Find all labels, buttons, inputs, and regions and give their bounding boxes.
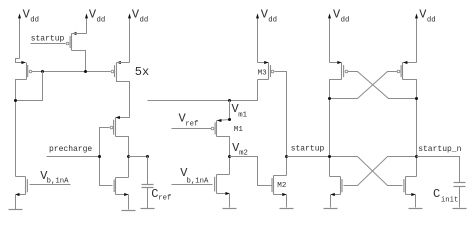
- transistor P5 latch-PMOS channel: [341, 63, 343, 80]
- transistor N2 source arrow: [15, 193, 19, 196]
- wire N2 gate Vb: [30, 184, 71, 186]
- wire N5 drain: [406, 176, 417, 178]
- wire diode connection: [16, 72, 43, 101]
- wire inverter output: [129, 156, 148, 158]
- label startup net: [291, 145, 325, 154]
- transistor P3 5x-PMOS channel: [116, 63, 118, 80]
- transistor M2 gate bar: [271, 178, 273, 192]
- transistor P5 source arrow: [337, 61, 341, 64]
- node cross left junction: [328, 97, 331, 100]
- transistor N5 NMOS channel: [405, 177, 407, 195]
- transistor P4 source arrow: [116, 116, 120, 119]
- label Vdd 3: [132, 8, 148, 25]
- wire N2 source: [16, 194, 26, 196]
- wire startup_n to Cinit: [417, 157, 460, 183]
- transistor N4 source arrow: [331, 193, 335, 196]
- transistor M2 NMOS channel: [273, 176, 275, 195]
- wire P1 drain: [16, 80, 27, 177]
- ground Cref: [141, 208, 155, 210]
- wire P3 source to Vdd: [117, 62, 130, 64]
- label M3: [258, 69, 268, 77]
- transistor P6 source arrow: [403, 61, 407, 64]
- wire Cinit bottom: [459, 187, 461, 208]
- wire N3 source to ground: [229, 194, 231, 208]
- wire P3 drain to P4 source: [116, 80, 130, 118]
- transistor M3 source arrow: [264, 61, 268, 64]
- label startup: [31, 34, 65, 43]
- wire M3 source: [258, 62, 269, 64]
- wire P5 source: [330, 62, 342, 64]
- power Vdd arrow 3: [128, 13, 131, 62]
- label Vdd 6: [419, 8, 435, 25]
- label Vdd 1: [23, 8, 39, 25]
- transistor P2 gate bubble: [66, 42, 69, 45]
- transistor P1 gate bar: [27, 65, 29, 77]
- label Vdd 2: [89, 8, 105, 25]
- node startup junction: [285, 155, 288, 158]
- wire Vm1 rail: [148, 80, 258, 101]
- ground N2: [9, 209, 23, 211]
- transistor P4 gate bar: [113, 120, 115, 135]
- transistor P5 gate bar: [343, 65, 345, 77]
- label Vdd 4: [261, 8, 277, 25]
- transistor N1 NMOS channel: [115, 178, 117, 195]
- wire N1 drain: [116, 177, 129, 179]
- wire N4 drain: [330, 176, 341, 178]
- transistor P1 gate bubble: [29, 70, 32, 73]
- label Vref: [179, 111, 199, 128]
- svg-text:b,1nA: b,1nA: [47, 178, 70, 186]
- wire N2 drain: [16, 176, 26, 178]
- svg-text:M2: M2: [277, 182, 287, 190]
- transistor N1 source arrow: [124, 193, 128, 196]
- svg-text:dd: dd: [341, 16, 350, 24]
- wire P5 drain: [330, 80, 342, 177]
- wire Vm2 to M2 gate: [230, 157, 272, 186]
- label M1: [234, 126, 244, 134]
- transistor N2 gate bar: [26, 179, 28, 192]
- node P2 drain junction: [84, 70, 87, 73]
- transistor M1 gate bar: [214, 122, 216, 134]
- wire M2 drain: [274, 175, 287, 177]
- label precharge: [49, 145, 92, 154]
- transistor N4 gate bar: [341, 179, 343, 192]
- wire N3 source: [217, 193, 230, 195]
- transistor P3 gate bubble: [111, 70, 114, 73]
- wire M2 source: [274, 194, 287, 196]
- label M2: [277, 182, 287, 190]
- svg-text:startup_n: startup_n: [418, 145, 461, 154]
- label Vm2: [232, 141, 248, 158]
- wire Cref bottom: [147, 188, 149, 209]
- node inverter output junction: [127, 155, 130, 158]
- node diode tap junction: [41, 70, 44, 73]
- wire P6 drain: [403, 80, 417, 177]
- node Cref junction: [146, 155, 149, 158]
- wire M3 drain: [258, 79, 269, 81]
- node Vm2 junction: [228, 155, 231, 158]
- node cross right junction: [415, 97, 418, 100]
- wire M1 source: [217, 101, 230, 121]
- transistor M1 PMOS channel: [216, 121, 218, 137]
- transistor N1 gate bar: [113, 180, 115, 192]
- wire startup input: [31, 43, 66, 45]
- wire M2 source to ground: [286, 195, 288, 208]
- transistor M3 PMOS channel: [268, 63, 270, 80]
- transistor M1 gate bubble: [211, 127, 214, 130]
- wire P2 source to Vdd: [72, 33, 87, 35]
- wire M1 gate Vref: [172, 128, 212, 130]
- label 5x: [135, 65, 149, 79]
- power Vdd arrow 2: [85, 13, 88, 33]
- transistor N2 NMOS channel: [25, 177, 27, 195]
- transistor P2 startup-PMOS channel: [71, 34, 73, 51]
- transistor P5 gate bubble: [345, 70, 348, 73]
- wire N3 gate Vb: [172, 184, 213, 186]
- power Vdd arrow 4: [256, 13, 259, 62]
- transistor P3 source arrow: [117, 61, 121, 64]
- svg-text:ref: ref: [185, 121, 198, 129]
- svg-text:dd: dd: [140, 16, 149, 24]
- node M1 source bend: [228, 118, 231, 121]
- power Vdd arrow 5: [328, 13, 331, 62]
- wire P5 gate cross: [348, 72, 417, 99]
- transistor P2 gate bar: [69, 36, 71, 48]
- svg-text:dd: dd: [268, 16, 277, 24]
- label Vb,1nA left: [40, 169, 69, 186]
- transistor N3 gate bar: [214, 177, 216, 192]
- label Vdd 5: [333, 8, 349, 25]
- transistor P3 gate bar: [114, 65, 116, 77]
- wire P4 drain: [116, 137, 129, 178]
- svg-text:startup: startup: [31, 34, 65, 43]
- transistor M3 gate bar: [270, 65, 272, 77]
- power Vdd arrow 1: [18, 13, 21, 58]
- power Vdd arrow 6: [415, 13, 418, 62]
- wire P6 gate cross: [330, 72, 398, 99]
- svg-text:precharge: precharge: [49, 145, 92, 154]
- transistor N3 NMOS channel: [216, 175, 218, 194]
- ground Cinit: [453, 208, 467, 210]
- transistor N5 source arrow: [411, 193, 415, 196]
- transistor P6 gate bar: [400, 65, 402, 77]
- label Vm1: [232, 102, 248, 119]
- wire P4 gate to precharge: [100, 128, 113, 186]
- transistor M1 source arrow: [217, 119, 221, 122]
- transistor P2 source arrow: [72, 32, 76, 35]
- svg-text:startup: startup: [291, 145, 325, 154]
- label Vb,1nA mid: [180, 166, 209, 186]
- wire N4 gate cross: [344, 157, 417, 186]
- node M1 source tap: [228, 99, 231, 102]
- svg-text:init: init: [441, 197, 459, 205]
- node latch startup junction: [328, 155, 331, 158]
- wire M1 drain: [217, 137, 230, 175]
- svg-text:dd: dd: [97, 16, 106, 24]
- wire N5 source to ground: [415, 195, 417, 208]
- wire N4 source to ground: [330, 195, 332, 208]
- wire N2 source to ground: [15, 195, 17, 210]
- transistor P4 PMOS channel: [115, 118, 117, 137]
- svg-text:m1: m1: [238, 112, 247, 120]
- capacitor Cinit plates: [454, 183, 466, 187]
- svg-text:C: C: [433, 187, 440, 201]
- transistor P6 gate bubble: [397, 70, 400, 73]
- transistor P6 latch-PMOS channel: [402, 63, 404, 80]
- svg-text:b,1nA: b,1nA: [187, 177, 210, 185]
- wire startup rail: [287, 156, 358, 158]
- ground N4: [324, 208, 338, 210]
- wire Vdd1 to P1 source: [16, 59, 26, 63]
- wire N1 source: [116, 194, 129, 196]
- wire N5 gate cross: [358, 157, 403, 186]
- node startup_n junction: [415, 155, 418, 158]
- label startup_n: [418, 145, 461, 154]
- transistor P4 gate bubble: [110, 126, 113, 129]
- label Cinit: [433, 187, 458, 205]
- svg-text:M1: M1: [234, 126, 244, 134]
- svg-text:5x: 5x: [135, 65, 149, 79]
- node precharge junction: [98, 155, 101, 158]
- wire Cref top: [147, 157, 149, 185]
- wire N3 drain: [217, 174, 230, 176]
- wire P6 source: [403, 62, 417, 64]
- svg-text:dd: dd: [30, 16, 39, 24]
- transistor M2 source arrow: [282, 193, 286, 196]
- transistor P1 PMOS channel: [26, 63, 28, 80]
- transistor N5 gate bar: [403, 179, 405, 192]
- wire gate rail: [32, 71, 111, 73]
- ground N1: [122, 210, 136, 212]
- node P1 drain junction: [14, 99, 17, 102]
- wire N4 source: [331, 194, 341, 196]
- svg-text:ref: ref: [158, 195, 171, 203]
- ground N3: [223, 208, 237, 210]
- transistor P1 source arrow: [21, 61, 25, 64]
- transistor N3 source arrow: [225, 192, 229, 195]
- ground M2: [280, 208, 294, 210]
- label Cref: [151, 187, 171, 203]
- svg-text:M3: M3: [258, 69, 268, 77]
- wire M3 gate to startup: [275, 72, 287, 176]
- ground N5: [409, 208, 423, 210]
- transistor M3 gate bubble: [271, 70, 274, 73]
- svg-text:dd: dd: [427, 16, 436, 24]
- wire N1 source to ground: [128, 195, 130, 210]
- capacitor Cref plates: [142, 185, 154, 188]
- wire N5 source: [406, 194, 416, 196]
- wire precharge: [47, 156, 100, 158]
- wire P2 drain: [72, 51, 86, 72]
- transistor N4 NMOS channel: [340, 177, 342, 195]
